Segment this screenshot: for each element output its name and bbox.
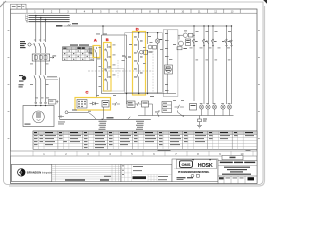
cam switch table — [63, 44, 94, 60]
column number band — [11, 151, 258, 156]
node L1 tap — [35, 15, 37, 17]
bus line L3 — [29, 19, 70, 21]
PE arrow right of motor — [58, 115, 64, 118]
cable label stack right — [136, 121, 144, 130]
motor terminal marks — [35, 103, 47, 104]
company logo box — [12, 164, 52, 181]
approvals grid — [121, 164, 172, 181]
frame row ticks — [8, 30, 260, 139]
top strip numbers — [34, 10, 234, 13]
earth connection — [197, 116, 202, 128]
contactor K1 designator — [22, 76, 26, 80]
svg-text:HOSK: HOSK — [198, 163, 213, 169]
diode D1 — [90, 102, 99, 105]
feeder junction nodes — [193, 25, 232, 26]
bus line L2 — [29, 17, 70, 19]
size box — [222, 155, 243, 159]
coil C1 on D chain — [140, 50, 148, 54]
motor M1 — [33, 111, 45, 123]
junction box on motor — [48, 100, 56, 104]
misc labels scatter — [30, 31, 231, 124]
cam table title — [70, 44, 78, 45]
rail PE bottom — [60, 118, 151, 120]
top-left revision mini box — [11, 4, 27, 9]
detail label — [158, 150, 171, 152]
relay K2 with socket — [165, 30, 173, 94]
svg-text:OMS: OMS — [181, 162, 190, 167]
breaker contacts on feeders — [192, 39, 232, 46]
node control feed — [102, 25, 104, 27]
rail bottom control — [102, 93, 177, 95]
svg-text:D: D — [136, 27, 139, 32]
lamp row — [199, 105, 231, 109]
OMS logo — [180, 161, 193, 168]
page shadow bottom — [9, 6, 265, 186]
timer relay T2 — [178, 33, 195, 37]
relay X2 — [127, 101, 135, 108]
rail neutral bottom — [138, 115, 234, 117]
terminal block X1 — [162, 102, 172, 113]
disconnect switch SB — [65, 111, 96, 120]
table row text — [34, 135, 254, 148]
svg-text:A: A — [94, 37, 97, 42]
control supply label DM — [56, 25, 63, 27]
cable label stack left — [99, 121, 107, 130]
bus line N — [29, 21, 70, 23]
coil K3 — [142, 101, 149, 107]
panel outline — [102, 69, 125, 92]
breaker Q1 operator circle — [28, 43, 31, 46]
highlight box D — [133, 32, 146, 96]
wire drops from C row — [104, 107, 159, 119]
page corner mark top-right — [263, 0, 267, 4]
node L2 tap — [40, 17, 42, 19]
revision list table — [52, 164, 121, 181]
overload relay F1 block — [32, 54, 50, 61]
logos cell — [172, 159, 218, 182]
drawing frame — [11, 9, 258, 184]
svg-text:N: N — [26, 21, 28, 24]
lamp H1 — [155, 33, 159, 94]
motor label — [25, 124, 31, 125]
disconnect switch lower — [178, 111, 184, 117]
highlight box A — [93, 46, 100, 58]
wire phase drops — [36, 16, 46, 43]
company name line — [174, 168, 216, 170]
relay coil KA — [190, 104, 197, 111]
fuse block F3 — [186, 39, 191, 46]
choke L reactor coils — [47, 76, 57, 77]
switch S1 in A — [95, 47, 97, 98]
highlight box B — [104, 43, 112, 92]
svg-text:PT. KOESOEMANTAR INDUSTRIAL: PT. KOESOEMANTAR INDUSTRIAL — [178, 171, 210, 174]
svg-text:C: C — [86, 90, 89, 95]
svg-text:B: B — [106, 37, 109, 42]
timer T1 — [148, 33, 157, 94]
bus labels — [25, 15, 28, 24]
contact C1 — [125, 55, 127, 59]
dashed wire B aux — [117, 60, 119, 78]
aux relay box — [102, 101, 109, 108]
wire aux branch — [126, 35, 128, 94]
page corner mark top-left — [0, 1, 6, 7]
motor enclosure box — [23, 106, 54, 127]
top column number strip — [11, 9, 258, 13]
breaker Q1 — [34, 43, 46, 53]
table header text — [34, 132, 253, 133]
enclosure outline — [163, 30, 178, 97]
svg-text:BRANDON Integrated: BRANDON Integrated — [27, 171, 54, 175]
node L3 tap — [45, 19, 47, 21]
title text cell — [218, 160, 257, 183]
page edge — [3, 2, 263, 185]
fuse F2 — [64, 25, 232, 27]
breaker Q1 label — [20, 41, 26, 48]
relay socket SC — [77, 100, 87, 109]
overload relay arrow — [50, 57, 54, 59]
dashed divider line — [88, 70, 153, 72]
dashed wire — [152, 48, 154, 93]
highlight box C — [75, 98, 111, 111]
aux contacts — [175, 105, 184, 109]
contactor K1 contacts — [34, 76, 46, 103]
bottom data row — [177, 176, 258, 184]
wire feeders — [194, 26, 232, 104]
sub-panel box — [125, 33, 163, 93]
wire control drop — [102, 26, 104, 35]
logo emblem — [18, 169, 25, 176]
bus line L1 — [29, 15, 70, 17]
cert marks — [191, 174, 194, 177]
contact pair — [112, 102, 141, 106]
wire to contactor — [36, 61, 46, 75]
contact chain B — [106, 44, 108, 90]
contact chain D — [137, 33, 139, 94]
lamp H2 — [177, 35, 183, 50]
